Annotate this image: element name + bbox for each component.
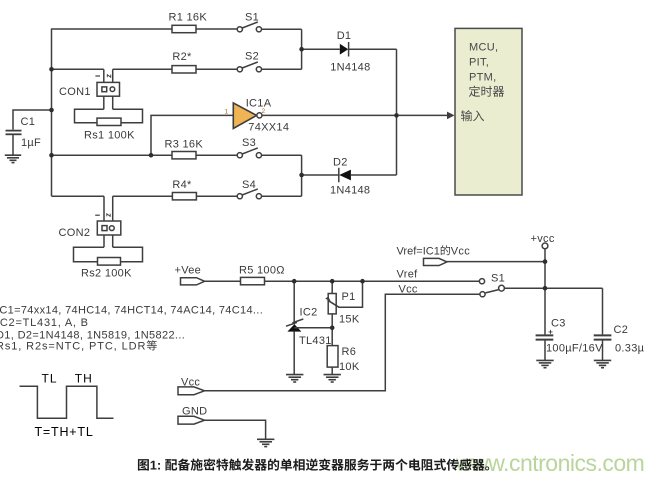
wire R3 to S3	[196, 154, 237, 156]
connector CON2	[97, 221, 121, 235]
node R3 tap	[49, 153, 54, 158]
wire +Vee to R5	[205, 280, 241, 282]
wire D1-D2 right vertical	[396, 49, 398, 175]
caption	[138, 458, 489, 470]
svg-text:S2: S2	[245, 51, 259, 63]
wire junction to D1	[302, 48, 340, 50]
ground R6	[324, 375, 341, 382]
power flag Vcc bottom	[178, 387, 205, 395]
svg-text:R5 100Ω: R5 100Ω	[239, 265, 285, 277]
wire S3 to junction	[262, 154, 302, 156]
pin mark CON2-2	[107, 214, 110, 217]
wire GND to ground	[205, 420, 266, 438]
wire C3 to ground	[544, 340, 546, 360]
wire R3 line left	[52, 154, 173, 156]
svg-text:D2: D2	[333, 157, 348, 169]
wire P1 wiper	[328, 281, 363, 307]
svg-text:S1: S1	[245, 12, 259, 24]
svg-text:T=TH+TL: T=TH+TL	[35, 425, 94, 439]
svg-text:+Vee: +Vee	[175, 265, 202, 277]
svg-text:PTM,: PTM,	[469, 72, 496, 84]
svg-text:74XX14: 74XX14	[248, 122, 289, 134]
wire R6 to ground	[331, 367, 333, 374]
wire CON2 pin1 drop	[103, 196, 105, 247]
svg-text:www.cntronics.com: www.cntronics.com	[455, 450, 644, 476]
wire S1 to junction	[262, 28, 302, 30]
switch S1b	[479, 279, 504, 297]
svg-text:IC2: IC2	[300, 307, 318, 319]
svg-text:IC1A: IC1A	[246, 98, 272, 110]
node ref junction	[330, 326, 335, 331]
wire R1 to S1	[196, 28, 237, 30]
svg-text:TH: TH	[75, 372, 93, 386]
svg-text:P1: P1	[342, 291, 356, 303]
power flag Vref=IC1 Vcc	[424, 258, 448, 265]
diode D2	[339, 168, 351, 183]
switch S4	[237, 189, 261, 199]
wire R4 to S4	[196, 195, 237, 197]
pin mark CON2-1	[95, 214, 100, 216]
wire CON2 pin2 drop	[112, 196, 114, 247]
block MCU/PIT/PTM box	[455, 28, 522, 195]
svg-text:C2: C2	[614, 324, 629, 336]
ground C3	[536, 360, 553, 367]
ground GND	[257, 439, 274, 446]
svg-text:1N4148: 1N4148	[330, 62, 370, 74]
svg-text:+vcc: +vcc	[531, 233, 555, 245]
node +vcc circle	[542, 243, 548, 249]
wire R2 line right	[113, 68, 172, 70]
shunt ref IC2 TL431	[286, 319, 303, 332]
wire P1 bottom	[331, 314, 333, 346]
potentiometer P1	[328, 294, 336, 314]
wire S3-S4 vertical	[301, 155, 303, 196]
wire C1 to ground	[12, 134, 14, 154]
switch S1	[237, 22, 261, 32]
svg-text:R2*: R2*	[172, 51, 192, 63]
wire CON1 pin2 drop	[112, 69, 114, 109]
resistor R4	[172, 193, 196, 200]
resistor Rs2 element	[98, 258, 121, 266]
svg-text:1µF: 1µF	[21, 137, 41, 149]
svg-text:R3 16K: R3 16K	[165, 139, 204, 151]
resistor R5	[241, 277, 265, 284]
resistor R6	[327, 346, 338, 368]
svg-text:IC1=74xx14, 74HC14, 74HCT14, 7: IC1=74xx14, 74HC14, 74HCT14, 74AC14, 74C…	[0, 305, 263, 317]
svg-text:CON1: CON1	[59, 86, 91, 98]
svg-text:MCU,: MCU,	[469, 42, 498, 54]
wire IC1A output line	[262, 114, 448, 116]
wire +vcc vertical	[544, 249, 546, 335]
node D1 junction	[299, 47, 304, 52]
sensor Rs1 body	[75, 109, 143, 123]
resistor R1	[172, 25, 196, 32]
wire IC1A input riser	[151, 115, 233, 155]
capacitor C2	[594, 335, 612, 339]
node IC1A input tap	[149, 153, 154, 158]
svg-text:0.33µ: 0.33µ	[615, 343, 645, 355]
wire left vertical node bus	[51, 29, 53, 197]
node R2 tap	[49, 67, 54, 72]
arrow P1 wiper	[325, 296, 330, 301]
resistor R2	[172, 66, 196, 73]
svg-text:GND: GND	[182, 406, 207, 418]
node wiper tap	[360, 279, 365, 284]
wire C2 to ground	[602, 340, 604, 360]
ground C1	[5, 155, 21, 162]
wire CON1 pin1 drop	[103, 69, 105, 109]
diode D1	[340, 42, 349, 57]
wire S4 to junction	[262, 195, 302, 197]
node D2 junction	[299, 173, 304, 178]
wire R5 to S1b (Vref line)	[265, 280, 480, 282]
wire R2 line left	[52, 68, 104, 70]
svg-text:R1 16K: R1 16K	[169, 12, 208, 24]
svg-text:PIT,: PIT,	[469, 57, 489, 69]
wire S1b to +vcc vertical	[504, 287, 602, 289]
pin mark CON1-2	[107, 75, 110, 78]
wire R4 line left	[52, 195, 105, 197]
svg-text:15K: 15K	[339, 314, 360, 326]
svg-text:S1: S1	[491, 273, 505, 285]
ground TL431	[286, 375, 303, 382]
wire S1-S2 vertical	[301, 29, 303, 69]
wire S2 to junction	[262, 68, 302, 70]
wire C2 drop	[602, 288, 604, 334]
svg-text:S4: S4	[242, 179, 256, 191]
node TL431 tap	[292, 279, 297, 284]
bubble IC1A output	[257, 113, 262, 118]
node output junction	[394, 113, 399, 118]
wire TL431 ref	[294, 327, 332, 329]
svg-text:Rs2 100K: Rs2 100K	[81, 268, 132, 280]
resistor R3	[172, 152, 196, 159]
svg-text:R6: R6	[342, 346, 357, 358]
ground C2	[594, 360, 611, 367]
node vref-vcc junction	[543, 259, 548, 264]
wire R4 line right	[113, 195, 173, 197]
wire D2 to right vertical	[351, 174, 397, 176]
svg-text:CON2: CON2	[59, 227, 91, 239]
wire C1 stub	[13, 110, 52, 130]
svg-text:IC2=TL431, A, B: IC2=TL431, A, B	[0, 317, 89, 329]
capacitor C3	[536, 335, 554, 339]
svg-text:1: 1	[225, 109, 229, 116]
svg-text:C1: C1	[21, 116, 36, 128]
note text block	[0, 305, 263, 353]
wire D1 to right vertical	[349, 48, 397, 50]
wire TL431 cathode riser	[293, 281, 295, 324]
wire R2 to S2	[196, 68, 237, 70]
wire TL431 anode to ground	[293, 332, 295, 374]
arrow into MCU	[447, 112, 455, 120]
wire P1 top	[331, 281, 333, 293]
node P1 top tap	[330, 279, 335, 284]
svg-text:2: 2	[262, 108, 266, 115]
node C1 tap	[49, 108, 54, 113]
svg-text:Vcc: Vcc	[181, 377, 200, 389]
label MCU timer	[469, 86, 504, 97]
op-amp gate IC1A	[233, 103, 256, 129]
svg-text:10K: 10K	[339, 361, 360, 373]
polarity mark C3	[549, 330, 553, 334]
svg-text:100µF/16V: 100µF/16V	[546, 343, 603, 355]
switch S2	[237, 62, 261, 72]
svg-text:Rs1 100K: Rs1 100K	[84, 130, 135, 142]
switch S3	[237, 148, 261, 158]
svg-text:Vcc: Vcc	[399, 284, 418, 296]
power flag GND	[178, 416, 205, 424]
svg-text:TL431: TL431	[299, 335, 332, 347]
svg-text:Vref: Vref	[397, 269, 419, 281]
svg-text:1N4148: 1N4148	[330, 185, 370, 197]
waveform TL/TH	[20, 386, 114, 418]
connector CON1	[97, 82, 120, 96]
wire Vcc flag to riser	[205, 294, 480, 391]
capacitor C1	[6, 131, 22, 135]
wire R1 line left	[52, 28, 173, 30]
svg-text:Vcc: Vcc	[451, 246, 470, 258]
power flag +Vee	[181, 278, 205, 285]
pin mark CON1-1	[95, 75, 100, 77]
svg-text:R4*: R4*	[172, 179, 192, 191]
svg-text:Vref=IC1: Vref=IC1	[397, 246, 440, 258]
sensor Rs2 body	[74, 247, 143, 262]
svg-text:S3: S3	[242, 137, 256, 149]
svg-text:C3: C3	[551, 318, 566, 330]
svg-text:TL: TL	[42, 372, 58, 386]
resistor Rs1 element	[97, 118, 121, 125]
node s1b-vcc junction	[543, 286, 548, 291]
wire junction to D2	[302, 174, 339, 176]
svg-text:Rs1, R2s=NTC, PTC, LDR: Rs1, R2s=NTC, PTC, LDR	[0, 341, 146, 353]
label note LDR deng	[147, 340, 157, 350]
svg-text:D1: D1	[337, 30, 352, 42]
wire Vref flag to +vcc	[447, 261, 545, 263]
label MCU input	[461, 110, 484, 121]
